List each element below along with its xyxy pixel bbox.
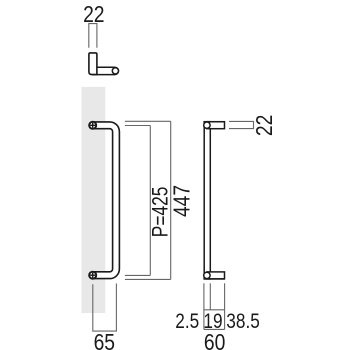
svg-text:2.5: 2.5 xyxy=(175,310,199,333)
dim bracket 22 (right) xyxy=(229,121,254,128)
dim bracket 22 (top) xyxy=(89,24,97,48)
bottom bar (60 bracket) xyxy=(204,328,225,330)
ext line tube-left xyxy=(203,283,205,329)
dim bracket 65 (bottom of front view) xyxy=(93,284,117,332)
svg-text:447: 447 xyxy=(169,185,195,217)
bottom edge overdraw xyxy=(203,278,224,280)
dim line 447 xyxy=(170,121,172,279)
bottom joint circle xyxy=(204,272,210,278)
top edge overdraw xyxy=(203,121,224,123)
door panel (gray strip) xyxy=(81,87,105,313)
handle tube xyxy=(93,125,116,275)
svg-text:65: 65 xyxy=(94,331,115,350)
svg-text:22: 22 xyxy=(83,2,104,27)
bottom arm xyxy=(207,272,225,279)
arm stadium (top view) xyxy=(92,67,119,74)
top mount screw xyxy=(89,122,96,129)
crossbar xyxy=(204,309,225,311)
top joint circle xyxy=(204,122,210,128)
mounting foot (top view rectangle) xyxy=(89,53,97,75)
dim line P=425 xyxy=(149,126,151,276)
svg-text:22: 22 xyxy=(253,115,278,136)
top arm xyxy=(207,122,225,129)
svg-text:60: 60 xyxy=(204,331,225,350)
extension ticks, bottom xyxy=(125,274,150,276)
ext line door face xyxy=(224,283,226,329)
ext line tube-right xyxy=(209,283,211,310)
grip tube (vertical bar) xyxy=(204,122,210,279)
bottom mount screw xyxy=(89,272,96,279)
extension ticks, top xyxy=(125,120,171,122)
grip bar cross-section circle (top view) xyxy=(112,68,118,74)
svg-text:38.5: 38.5 xyxy=(226,310,260,333)
